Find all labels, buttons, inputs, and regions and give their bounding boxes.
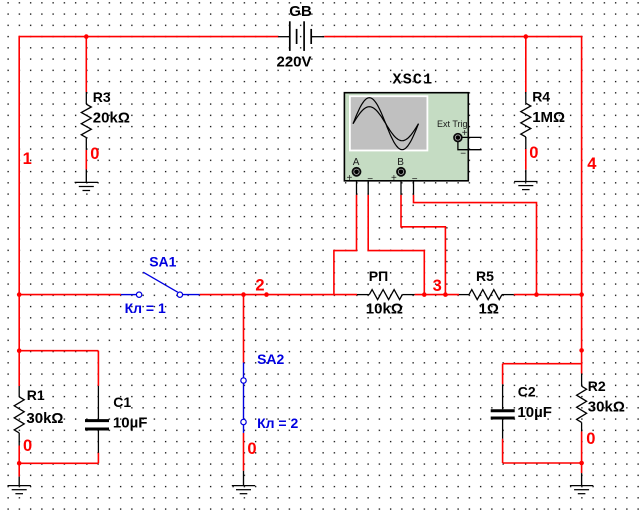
wire: SA2 top red segment from node 2 [243,295,245,363]
svg-text:C2: C2 [518,384,536,400]
wire: R3 top lead from top bus [85,37,87,92]
wire: top bus left segment (node 1 to battery) [19,36,278,38]
switch SA2 [241,363,246,433]
wire: scope B- stub and lead to node 3 right [405,172,537,295]
node junction main bus / scope B+ (node 3 right) [443,292,448,297]
ground (R3) [75,170,98,191]
svg-text:R4: R4 [532,89,550,105]
svg-text:10kΩ: 10kΩ [366,301,403,318]
wire: SA2 bottom red segment (node 0) [243,433,245,471]
battery GB [278,21,324,51]
scope terminal A [353,168,361,176]
svg-text:C1: C1 [113,394,131,410]
svg-text:−: − [367,174,373,185]
node junction left rail / C1 top [17,348,22,353]
svg-text:20kΩ: 20kΩ [93,110,130,127]
svg-text:1: 1 [23,150,32,168]
wire: Ext Trig - stub [458,142,482,150]
wire: right ground red segment [581,463,583,473]
resistor R2 [577,374,587,432]
svg-text:0: 0 [23,437,32,455]
wire: main middle bus R5 to right rail [514,294,582,296]
node junction main bus / left rail [17,292,22,297]
wire: C1 top lead vertical red [97,351,99,386]
svg-text:4: 4 [587,155,597,173]
wire: main middle bus SA1 to RP [200,294,357,296]
svg-text:SA1: SA1 [149,253,176,269]
wire: scope A+ lead down [334,176,357,295]
node junction left rail / C1 bottom [17,461,22,466]
wire: Ext Trig + stub [462,136,481,138]
wire: R4 bottom red segment (node 0) [525,149,527,170]
node junction wire joint right of node 2 [264,292,269,297]
wire: R1 bottom red segment (node 0) [18,446,20,464]
oscilloscope screen [350,96,428,150]
node junction main bus / right rail [579,292,584,297]
oscilloscope XSC1 body [344,93,468,181]
potentiometer RP (resistor) [357,290,415,300]
node junction top bus / R3 [84,34,89,39]
svg-text:0: 0 [90,145,99,163]
oscilloscope sine trace 2 [353,107,419,141]
svg-text:−: − [412,174,418,185]
svg-text:+: + [391,173,397,184]
resistor R1 [14,386,24,446]
wire: C2 top branch horizontal [503,363,582,365]
ground (R4) [514,170,537,190]
wire: left rail node 1 (vertical) [18,36,20,386]
svg-text:B: B [397,157,404,168]
svg-text:GB: GB [289,3,312,20]
node junction main bus / scope B- drop [534,292,539,297]
svg-text:A: A [353,157,360,168]
node junction right rail / C2 top [579,348,584,353]
oscilloscope sine trace 1 [353,98,419,150]
wire: R4 top lead from top bus [525,37,527,92]
svg-text:0: 0 [529,144,538,162]
svg-text:220V: 220V [277,54,312,71]
wire: R2 bottom red segment (node 0) [581,431,583,463]
svg-text:3: 3 [433,277,442,295]
wire: main middle bus RP to R5 [415,294,459,296]
wire: C2 bottom lead vertical red [502,439,504,463]
svg-text:R3: R3 [93,89,111,105]
svg-text:Кл = 2: Кл = 2 [257,415,298,431]
wire: C1 bottom branch horizontal [19,462,98,464]
svg-text:R1: R1 [27,387,45,403]
capacitor C2 [491,384,515,438]
wire: scope B+ lead down [401,176,445,295]
svg-text:10µF: 10µF [517,404,552,421]
wire: scope A- stub and lead [360,172,424,295]
wire: right rail node 4 (vertical) [581,36,583,374]
node junction main bus / scope A- (node 3 left) [422,292,427,297]
wire: main middle bus left of SA1 [19,294,121,296]
svg-text:+: + [347,173,353,184]
svg-text:РП: РП [369,268,388,284]
wire: top bus right segment (battery to node 4) [324,36,581,38]
scope terminal B [397,168,405,176]
capacitor C1 [85,386,109,453]
Ext Trig terminal [454,134,462,142]
wire: R3 bottom red segment (node 0) [85,150,87,170]
svg-text:1MΩ: 1MΩ [532,109,565,126]
svg-text:30kΩ: 30kΩ [588,398,625,415]
resistor R5 [459,290,514,300]
svg-text:R5: R5 [476,268,494,284]
wire: C2 top lead vertical red [502,364,504,385]
svg-text:R2: R2 [588,378,606,394]
svg-text:10µF: 10µF [113,414,147,431]
svg-text:XSC1: XSC1 [393,72,434,89]
svg-text:Кл = 1: Кл = 1 [125,300,166,316]
node junction right rail / C2 bottom [579,461,584,466]
svg-text:2: 2 [255,277,264,295]
wire: C2 bottom branch horizontal [503,462,582,464]
node junction main bus / SA2 (node 2) [241,292,246,297]
svg-text:0: 0 [247,440,256,458]
svg-text:0: 0 [586,430,595,448]
wire: C1 bottom lead vertical red [97,453,99,464]
node junction top bus / R4 [524,34,529,39]
resistor R4 [521,92,531,149]
resistor R3 [81,92,91,150]
svg-text:30kΩ: 30kΩ [26,410,63,427]
svg-text:1Ω: 1Ω [479,301,499,318]
switch SA1 [121,272,200,297]
wire: C1 top branch horizontal [19,350,98,352]
ground (R2) [570,473,593,494]
ground (left) [8,477,31,494]
ground (SA2) [232,471,255,494]
wire: left ground red segment [18,463,20,476]
svg-text:SA2: SA2 [257,351,284,367]
